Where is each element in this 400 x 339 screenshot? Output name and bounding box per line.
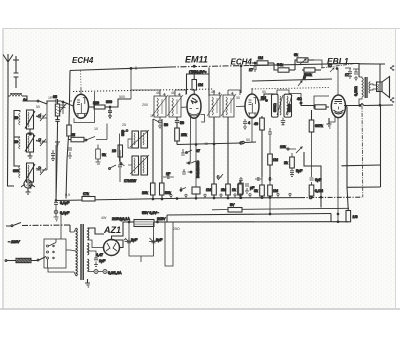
- wire tube1 grid return: [70, 100, 72, 102]
- wire dashdot to EBL1 label area: [314, 60, 322, 68]
- rectifier AZ1 envelope: [104, 240, 120, 256]
- trimmer caps under IF2: [216, 174, 223, 180]
- svg-text:1M: 1M: [198, 83, 203, 87]
- cap C7 with ground x247: [245, 184, 249, 193]
- AVC dotted line: [73, 89, 214, 92]
- T1 center tap ground: [85, 279, 90, 287]
- EM11 grid lead from IF1: [182, 106, 188, 108]
- wire osc boxes left column: [128, 139, 132, 148]
- resistor R11: [238, 184, 243, 195]
- wire tube3 plate to det can: [260, 94, 269, 100]
- svg-text:1M: 1M: [258, 56, 263, 60]
- EBL1 bottom lead: [337, 117, 339, 222]
- svg-text:1R: 1R: [150, 114, 155, 118]
- resistor R12 40 below det: [261, 116, 263, 118]
- page border top: [3, 28, 400, 30]
- tube ECH4 no2 envelope: [245, 88, 259, 130]
- switch lever top x153: [153, 119, 159, 122]
- resistor R20: [260, 185, 265, 196]
- tube3 grid lead from IF2: [236, 105, 245, 107]
- svg-text:50: 50: [164, 123, 168, 127]
- tube1 top lead: [80, 88, 82, 94]
- corner wire tone: [304, 152, 321, 208]
- cap C15 6uF right column: [311, 132, 313, 177]
- wire EBL1 cathode to bus: [337, 221, 339, 223]
- EBL1 top lead: [337, 69, 339, 96]
- power transformer T1: [70, 224, 89, 280]
- IF transformer 2 left can: [207, 94, 222, 117]
- svg-text:4Ω: 4Ω: [297, 97, 302, 101]
- antenna symbol: [3, 54, 13, 70]
- IF transformer 1 right can: [167, 95, 183, 117]
- wire bus drop to IF1 top: [130, 68, 132, 90]
- svg-text:10k: 10k: [280, 145, 286, 149]
- svg-text:25: 25: [122, 123, 126, 127]
- cap C12 gnd 5uF: [290, 168, 294, 177]
- top bus dash-dot middle stretch: [170, 66, 250, 68]
- cap C2 in column: [55, 116, 59, 126]
- svg-text:4W: 4W: [101, 216, 107, 220]
- resistor R4 horizontal padder: [68, 137, 84, 142]
- osc switch contacts left: [120, 131, 127, 166]
- resistor R8 1M above EM11: [192, 80, 197, 91]
- wire speaker return vertical x380: [379, 81, 381, 105]
- svg-text:47: 47: [196, 149, 200, 153]
- antenna coupling coil L1: [10, 94, 22, 97]
- ground below L3: [28, 152, 33, 158]
- resistor R25 5V box in sub line: [212, 209, 228, 211]
- svg-text:40: 40: [254, 122, 258, 126]
- bottom bus B: [167, 214, 331, 216]
- svg-text:1μF: 1μF: [99, 259, 106, 263]
- switch lever after R4: [86, 124, 107, 141]
- wire speaker voice coil to OPT secondary: [370, 84, 377, 85]
- wire det can tops: [277, 90, 289, 94]
- bottom bus A: [56, 198, 300, 201]
- mains wire to transformer: [22, 224, 70, 227]
- svg-text:(7/8)6,3V∿: (7/8)6,3V∿: [189, 70, 207, 74]
- AF coupling mid: cap C11: [268, 132, 272, 134]
- switch and resistor above transformer: [110, 165, 120, 182]
- wire external speaker tee stub: [359, 63, 376, 65]
- ground below L4: [28, 182, 33, 188]
- output transformer T2: [359, 77, 370, 105]
- T1 core: [80, 224, 82, 280]
- junction dots on bus A: [152, 198, 154, 200]
- wire top right horizontal y105: [344, 104, 393, 106]
- top bus right stretch: [250, 64, 352, 66]
- cap C8 gnd near tube3 top right: [243, 119, 247, 129]
- svg-text:30: 30: [236, 96, 240, 100]
- resistor R26 5k with ground: [97, 145, 99, 150]
- svg-text:0,29Ω: 0,29Ω: [354, 86, 358, 96]
- bus B left corner down: [166, 215, 168, 222]
- wire EBL1 plate to right rail: [347, 107, 348, 211]
- svg-text:0k: 0k: [294, 53, 298, 57]
- svg-text:200: 200: [93, 101, 99, 105]
- tube EM11 envelope: [182, 94, 246, 162]
- vertical from det R12: [261, 136, 263, 177]
- svg-text:50: 50: [262, 90, 266, 94]
- output terminal forks right: [390, 65, 394, 70]
- wire det out to EBL1 grid resistor: [301, 103, 314, 106]
- svg-text:1R: 1R: [48, 96, 53, 100]
- junction dot det out: [300, 102, 302, 104]
- mains switch: [6, 223, 21, 227]
- svg-text:3k: 3k: [254, 189, 258, 193]
- svg-text:~ 220V: ~ 220V: [8, 240, 20, 244]
- svg-text:5k: 5k: [102, 153, 106, 157]
- resistor R18 1M mid: [268, 154, 273, 165]
- cap C17 1uF near AZ1: [94, 258, 98, 266]
- wire AZ1 right side B+: [112, 240, 124, 248]
- loudspeaker: [377, 77, 390, 98]
- svg-text:5000: 5000: [288, 104, 292, 112]
- band coil box L2: [19, 110, 35, 129]
- vertical wires to bottom bus from osc area: [152, 119, 154, 183]
- cap C4 column x70: [68, 148, 72, 158]
- EM11 right hook: [201, 115, 205, 123]
- svg-text:50: 50: [246, 138, 250, 142]
- svg-text:17: 17: [249, 68, 253, 72]
- resistor R19 2k: [290, 157, 295, 168]
- svg-text:50: 50: [180, 121, 184, 125]
- EM11 bottom leads: [189, 118, 191, 163]
- tube ECH4 no1 envelope: [74, 70, 95, 122]
- resistor R23 right bottom: [346, 211, 351, 222]
- wire IF1 tops to bus: [131, 90, 160, 99]
- long left wire down to lamp: [8, 96, 15, 186]
- tube EBL1 envelope: [329, 69, 347, 222]
- EBL1 left cathode lead to ground: [329, 117, 335, 123]
- wire selector to transformer: [66, 249, 70, 251]
- page border bottom: [0, 308, 400, 310]
- voltage selector panel: [44, 239, 66, 268]
- T1 HV secondary: [88, 228, 89, 240]
- svg-text:5V: 5V: [230, 203, 235, 207]
- svg-text:50: 50: [36, 105, 40, 109]
- wire switch bus to grid line: [47, 101, 56, 104]
- caps C5 pair near osc bottom: [163, 175, 174, 179]
- switch contacts mid x186: [181, 149, 192, 155]
- wire x270 busA to busB: [269, 198, 271, 215]
- wire T1 top to AZ1 plate: [88, 228, 105, 234]
- pot P2 with arrow: [287, 148, 289, 150]
- svg-text:1k: 1k: [232, 188, 236, 192]
- wire EBL1 drop from bus: [336, 68, 338, 70]
- main B+ top bus wire: [70, 67, 170, 71]
- wire tube3 bottom to detector line: [251, 130, 253, 142]
- svg-text:80: 80: [14, 140, 18, 144]
- volume pot line y80: [252, 79, 332, 81]
- svg-text:300: 300: [106, 100, 112, 104]
- bus B right corner: [330, 214, 332, 222]
- switch contacts mid lower: [186, 161, 196, 163]
- svg-text:Bandbreite: Bandbreite: [196, 161, 200, 178]
- svg-text:800: 800: [13, 169, 19, 173]
- field coil choke box: [129, 221, 134, 223]
- svg-text:2M: 2M: [221, 188, 226, 192]
- cap C16 to ground left of OPT: [353, 69, 359, 80]
- wire R2 to IF1: [110, 99, 131, 107]
- antenna down wire: [8, 70, 10, 96]
- contact circles row on bus A: [170, 193, 291, 198]
- svg-text:AZ1: AZ1: [103, 225, 121, 235]
- wire AZ1 anode loop: [88, 240, 104, 248]
- resistor R16 500k: [302, 68, 321, 72]
- EBL1 right plate lead: [345, 106, 347, 108]
- verticals under IF2: [213, 117, 215, 184]
- left small parts x241-248: [239, 177, 243, 183]
- svg-text:0,5: 0,5: [65, 193, 70, 197]
- svg-text:46: 46: [156, 91, 160, 95]
- series resistor R24 in bus A: [82, 197, 95, 202]
- svg-text:300Ω: 300Ω: [273, 103, 277, 112]
- resistor R5 20k: [151, 183, 156, 195]
- barretter box 3133: [132, 220, 134, 222]
- cap C10 17 right of EBL1 top: [345, 68, 352, 78]
- fuse: [5, 257, 46, 263]
- svg-text:17k: 17k: [83, 192, 89, 196]
- AF line y88: [252, 88, 330, 90]
- svg-text:46: 46: [211, 90, 215, 94]
- column wire down to bus A: [56, 126, 58, 201]
- tube1 electrodes: [77, 98, 87, 118]
- resistor R13 607k right column: [311, 110, 313, 120]
- osc coil box pair lower: [130, 155, 149, 175]
- open circle junction on bus A: [309, 196, 312, 199]
- svg-text:500: 500: [119, 95, 125, 99]
- resistor R27 in left rail: [67, 125, 71, 136]
- resistor R22 0.1M: [309, 185, 314, 196]
- grid coupling cap C1: [56, 99, 62, 103]
- EM11 shield box: [187, 74, 210, 96]
- resistor R1 vertical: [57, 101, 59, 104]
- svg-text:10: 10: [94, 127, 98, 131]
- svg-text:5μF: 5μF: [296, 169, 303, 173]
- svg-text:8μF: 8μF: [131, 238, 138, 242]
- svg-text:17: 17: [328, 64, 332, 68]
- trimmer caps right of coils: [36, 113, 46, 121]
- band coil box L3: [19, 134, 35, 152]
- component box lower: [192, 187, 200, 194]
- svg-text:40: 40: [204, 142, 208, 146]
- svg-text:EM11: EM11: [185, 55, 208, 65]
- svg-text:6μF: 6μF: [315, 178, 322, 182]
- line y144 with open circle: [177, 143, 241, 145]
- svg-text:17: 17: [345, 73, 349, 77]
- svg-text:215V: 215V: [157, 217, 166, 221]
- band switch contacts: [27, 101, 47, 104]
- filter cap C19 8uF: [153, 222, 155, 252]
- svg-text:0,1μF: 0,1μF: [60, 211, 70, 215]
- wire mains to selector: [60, 214, 62, 239]
- svg-text:8μF: 8μF: [156, 238, 163, 242]
- tube1 top dotted riser: [80, 70, 82, 88]
- bus A dashdot right portion: [300, 196, 362, 198]
- svg-text:54k: 54k: [277, 63, 283, 67]
- wire AZ1 filament tap: [88, 251, 97, 258]
- svg-text:05: 05: [71, 133, 75, 137]
- resistor R10: [226, 184, 231, 195]
- resistor R7 under IF1: [175, 117, 179, 125]
- caps C13 C14 pair y179: [255, 177, 262, 181]
- resistor R21: [268, 185, 273, 196]
- IF transformer 1 left can: [152, 95, 168, 117]
- svg-text:05: 05: [53, 95, 57, 99]
- svg-text:17k/1W: 17k/1W: [124, 179, 137, 183]
- tube3 top lead: [251, 88, 253, 94]
- svg-text:2k: 2k: [284, 161, 288, 165]
- svg-text:4,47: 4,47: [96, 253, 103, 257]
- IF transformer 2 right can: [221, 94, 236, 117]
- switch cluster lower x183: [181, 187, 186, 192]
- left feed wire of coil column: [14, 111, 20, 167]
- cap C3 to ground at 110: [108, 107, 112, 118]
- pot P1 top with arrow: [295, 58, 314, 70]
- ground electrode stub: [13, 56, 19, 88]
- band coil box L4: [19, 163, 35, 182]
- page border left: [2, 29, 4, 310]
- svg-text:6,3/1,3A: 6,3/1,3A: [108, 271, 122, 275]
- filter cap C18 8uF: [128, 222, 130, 252]
- dial lamp box: [134, 221, 136, 223]
- svg-text:25k: 25k: [181, 133, 187, 137]
- external speaker tee terminal: [375, 64, 385, 81]
- bus A left end caps to ground: [55, 200, 57, 202]
- wire IF2 tops: [213, 90, 215, 95]
- ground tap on column: [55, 142, 60, 146]
- svg-text:1a: 1a: [23, 98, 27, 102]
- svg-text:25Ω: 25Ω: [173, 227, 180, 231]
- svg-text:5M: 5M: [261, 96, 266, 100]
- svg-text:1M: 1M: [206, 188, 211, 192]
- junction dots on top bus: [193, 65, 195, 67]
- page border right: [395, 29, 397, 310]
- heater terminals circles: [88, 270, 108, 274]
- svg-text:4: 4: [248, 121, 250, 125]
- svg-text:50: 50: [14, 116, 18, 120]
- tube1 shield box: [74, 92, 95, 123]
- wire grid line into tube1: [62, 102, 74, 107]
- cap det bottom: [281, 118, 285, 125]
- big drop wire from bus x241: [240, 66, 242, 93]
- svg-text:46: 46: [171, 91, 175, 95]
- resistor R17 EBL1 grid stopper: [314, 105, 329, 109]
- EBL1 shield partial box: [314, 96, 329, 109]
- detector IF can left: [272, 94, 284, 117]
- cap C6 under IF1 left: [158, 117, 162, 128]
- resistor R9: [212, 184, 217, 195]
- svg-text:0,1μF: 0,1μF: [60, 201, 70, 205]
- cap C9 below node: [253, 67, 257, 69]
- svg-text:1M: 1M: [273, 158, 278, 162]
- svg-text:1/6: 1/6: [353, 215, 358, 219]
- svg-text:200: 200: [142, 103, 148, 107]
- wire top bus to output transformer: [352, 64, 359, 78]
- tuning capacitor CV1: [59, 101, 67, 114]
- bottom bus C: [167, 221, 348, 223]
- heater bus rectangle right of transformer: [165, 222, 173, 266]
- trimmer plus marks on can tops: [218, 92, 234, 95]
- open circle junction y142: [242, 141, 244, 143]
- T1 primary winding: [76, 228, 77, 276]
- svg-text:607k: 607k: [315, 124, 323, 128]
- ground at EBL1: [327, 118, 332, 128]
- pilot lamp bottom left: [21, 180, 35, 194]
- cap C4b column x53: [51, 150, 55, 161]
- tube3 bottom lead: [251, 118, 253, 130]
- svg-text:55V 6,3V~: 55V 6,3V~: [142, 211, 159, 215]
- wire horizontal y165: [342, 164, 381, 167]
- vertical wire x56 from front end: [55, 145, 57, 201]
- top-right network: resistor R14 1M: [252, 61, 274, 65]
- resistor R15 54k: [274, 63, 295, 72]
- bottom return wire of PSU: [129, 252, 154, 256]
- resistor R3 vertical x120: [118, 145, 123, 157]
- resistor R2 horizontal after tube1: [89, 105, 111, 109]
- dashdot vertical x362: [361, 106, 364, 198]
- vertical wire x196 EM11 cathode down: [195, 130, 197, 187]
- vertical drop from bus at ECH4 left, leaning rail: [69, 71, 70, 126]
- svg-text:ECH4: ECH4: [72, 56, 94, 65]
- resistor R6 50k: [160, 183, 165, 195]
- ground below L2: [28, 129, 33, 135]
- wire coil to switch: [22, 96, 27, 101]
- wire horizontal y187: [347, 186, 381, 188]
- svg-text:20k: 20k: [142, 191, 148, 195]
- detector IF can right: [284, 94, 292, 117]
- svg-text:1M: 1M: [273, 189, 278, 193]
- osc coil box pair upper: [130, 130, 149, 148]
- svg-text:10: 10: [112, 149, 116, 153]
- svg-text:210Vg0,1A: 210Vg0,1A: [112, 217, 130, 221]
- wire det right top to column: [289, 94, 301, 104]
- svg-text:0,1M: 0,1M: [315, 189, 323, 193]
